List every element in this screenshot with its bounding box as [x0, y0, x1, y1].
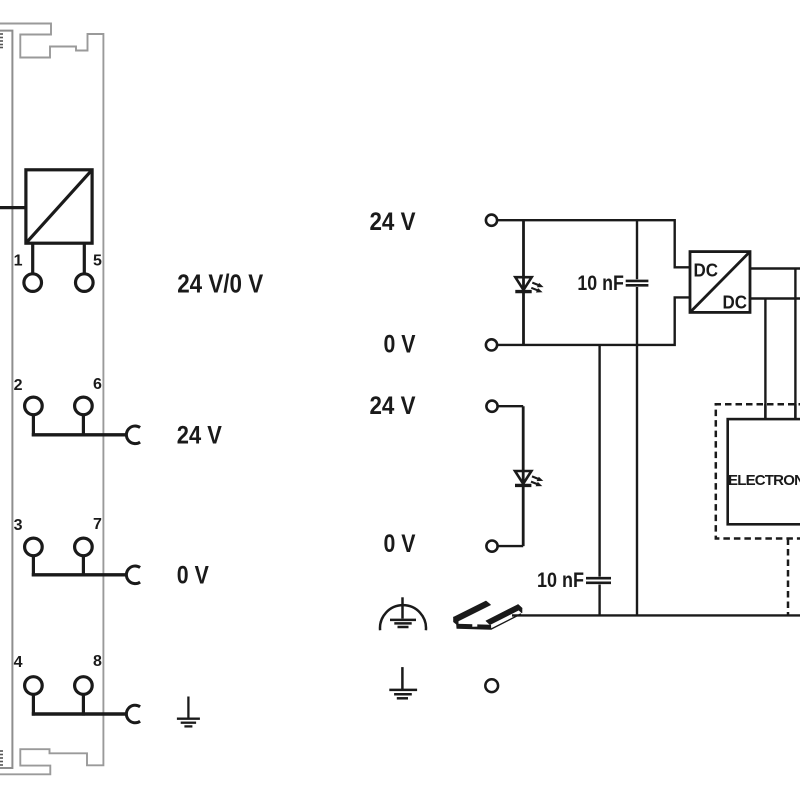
svg-text:8: 8 [93, 653, 102, 670]
LED1 arrows [531, 283, 543, 293]
terminal 1 circle [24, 274, 42, 292]
channel notch [472, 624, 477, 627]
LED2 cathode bar [515, 484, 531, 487]
ground symbol bottom left [389, 667, 417, 698]
capacitor C2 top wire [636, 220, 638, 279]
capacitor C1 bottom wire [598, 585, 600, 616]
svg-text:0 V: 0 V [384, 530, 416, 558]
bus contact stripes bottom-left [0, 751, 3, 765]
svg-text:24 V: 24 V [177, 421, 222, 449]
ground symbol row4 [177, 697, 200, 727]
svg-text:24 V/0 V: 24 V/0 V [177, 268, 264, 298]
terminal 1 stub [31, 243, 34, 274]
field earth terminal circle [485, 679, 498, 692]
back flange bar [454, 601, 491, 621]
functional earth arc symbol [380, 597, 426, 630]
terminal 3 circle [25, 538, 43, 556]
svg-text:0 V: 0 V [384, 331, 416, 359]
connector arc row 3/7 [126, 566, 140, 584]
terminal 4 circle [25, 677, 43, 695]
channel floor front face [457, 624, 491, 629]
terminal 2 circle [25, 397, 43, 415]
connector arc row 2/6 [126, 426, 140, 444]
earth bus wire [512, 614, 800, 616]
svg-text:10 nF: 10 nF [577, 272, 624, 295]
svg-text:5: 5 [93, 253, 102, 270]
front flange bar [486, 605, 522, 625]
module outline top profile [0, 24, 103, 775]
terminal 5 circle [76, 274, 94, 292]
right 24V terminal circle group1 [486, 215, 497, 226]
DC output bottom drop [764, 299, 766, 420]
terminal 4 stub [32, 694, 35, 715]
bar row 2/6 [32, 433, 127, 436]
svg-text:1: 1 [14, 253, 23, 270]
DC/DC converter box [690, 252, 750, 313]
24V wire group2 [498, 405, 524, 407]
terminal 3 stub [32, 556, 35, 577]
LED1 wire [522, 220, 525, 345]
LED2 wire [522, 406, 525, 546]
svg-text:ELECTRONICS: ELECTRONICS [728, 472, 800, 489]
capacitor C1 plates [586, 577, 611, 580]
back flange end cap [454, 617, 458, 625]
DC output top drop [794, 269, 796, 420]
capacitor C1 top wire [598, 345, 600, 577]
electronics dashed enclosure [716, 404, 800, 615]
capacitor C2 bottom wire [636, 287, 638, 615]
DC output top wire [750, 267, 800, 269]
terminal 2 stub [32, 415, 35, 437]
right 0V terminal circle group2 [486, 541, 497, 552]
bar row 3/7 [32, 573, 127, 576]
DIN rail icon [454, 601, 522, 629]
0V wire group1 [497, 297, 690, 345]
power supply box with diagonal [26, 170, 92, 243]
feed wire into box [0, 206, 26, 209]
svg-text:0 V: 0 V [177, 561, 209, 589]
LED1 triangle [515, 277, 531, 290]
LED2 arrows [531, 476, 543, 486]
right 0V terminal circle group1 [486, 339, 497, 350]
24V wire group1 [497, 220, 690, 267]
right 24V terminal circle group2 [486, 401, 497, 412]
front flange tip end face [518, 605, 522, 613]
terminal 8 stub [82, 694, 85, 715]
LED2 triangle [515, 471, 531, 484]
connector arc row 4/8 [126, 705, 140, 723]
terminal 8 circle [75, 677, 93, 695]
svg-text:10 nF: 10 nF [537, 569, 584, 592]
svg-text:2: 2 [14, 377, 23, 394]
electronics input wires [764, 404, 766, 419]
svg-text:DC: DC [723, 293, 748, 313]
capacitor C2 plates [626, 280, 649, 283]
svg-text:3: 3 [14, 517, 23, 534]
svg-text:DC: DC [694, 261, 719, 281]
LED1 cathode bar [515, 290, 531, 293]
base right sliver outline [491, 614, 521, 629]
terminal 5 stub [83, 243, 86, 274]
module outline left edge [0, 31, 12, 768]
terminal 6 stub [82, 415, 85, 437]
bus contact stripes top-left [0, 34, 3, 48]
svg-text:24 V: 24 V [370, 208, 416, 236]
svg-text:7: 7 [93, 516, 102, 533]
terminal 7 stub [82, 556, 85, 577]
svg-text:24 V: 24 V [370, 392, 416, 420]
electronics box [728, 419, 800, 524]
terminal 7 circle [75, 538, 93, 556]
svg-text:4: 4 [14, 654, 23, 671]
0V wire group2 [498, 545, 524, 547]
DC output bottom wire [750, 297, 800, 299]
bar row 4/8 [32, 712, 127, 715]
terminal 6 circle [75, 397, 93, 415]
svg-text:6: 6 [93, 376, 102, 393]
